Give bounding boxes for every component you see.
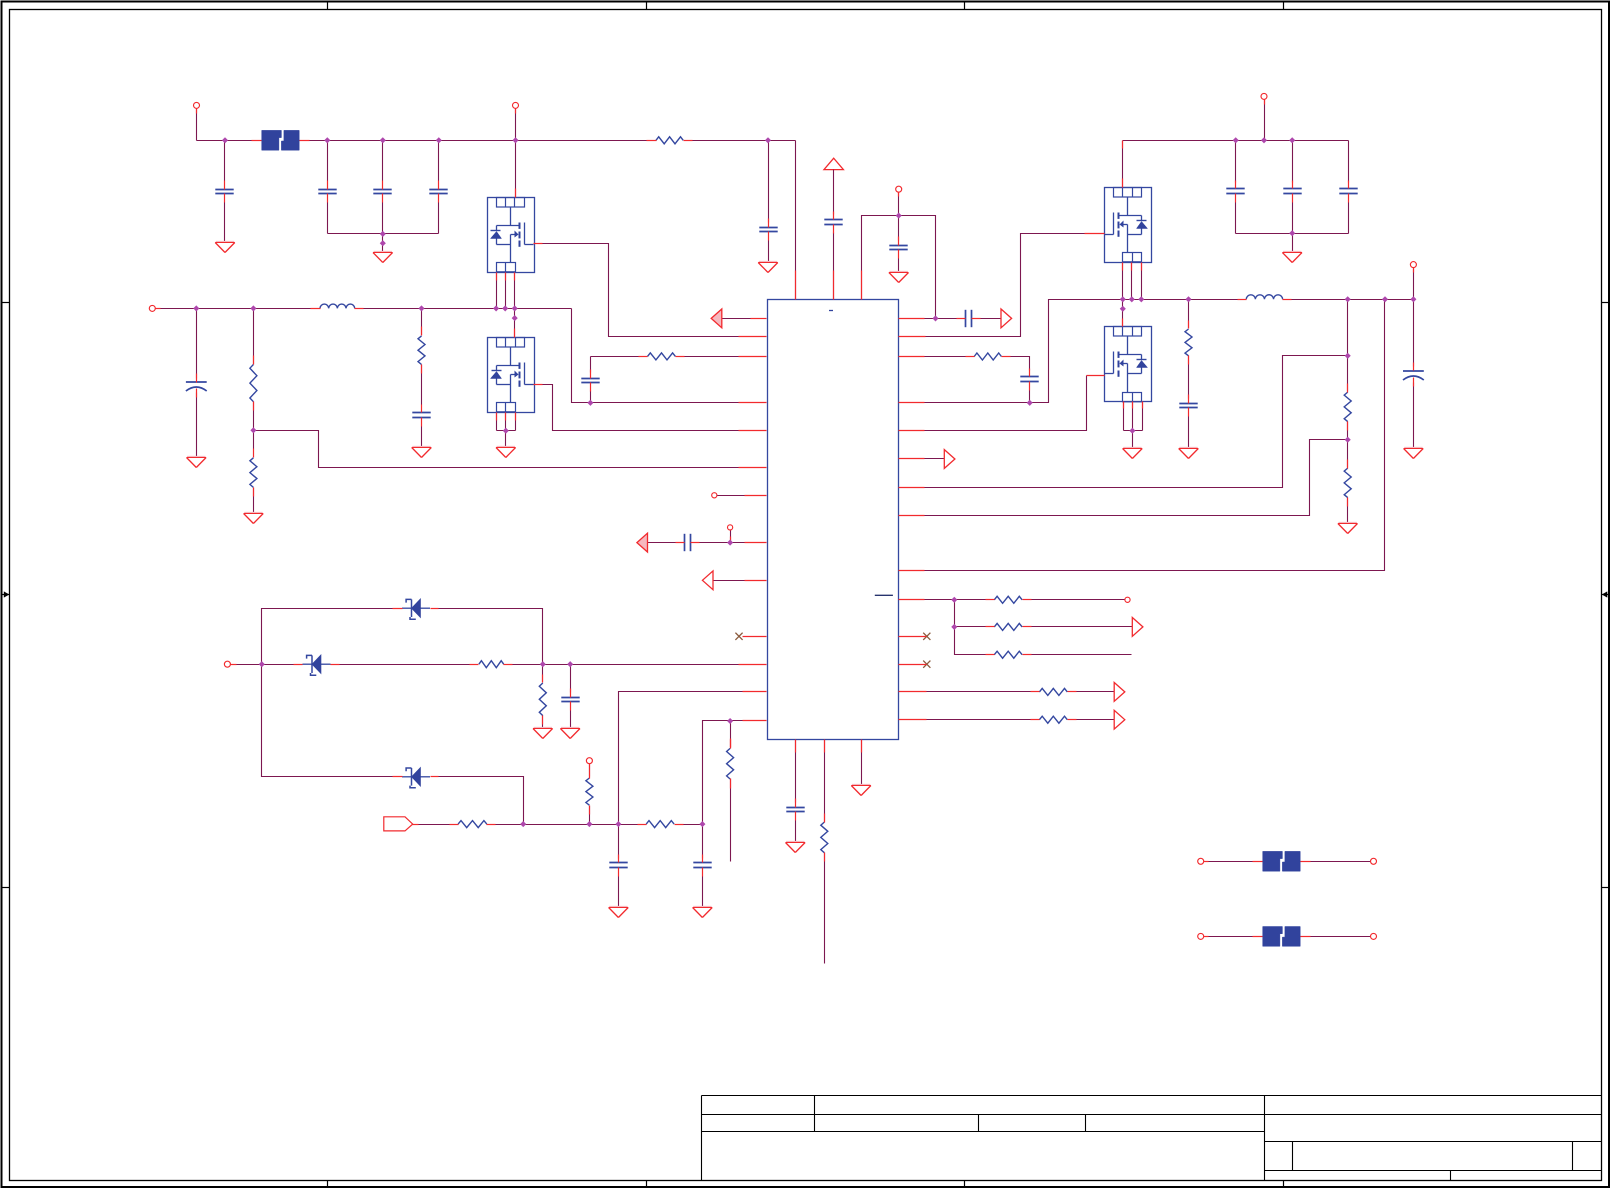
wire Cb bottom lead (590, 391, 592, 403)
resistor R snub R (1185, 329, 1192, 356)
resistor R fb2 (1344, 468, 1351, 498)
wire Q3 source lead x=1131.8 (1131, 263, 1133, 300)
wire bottom pin2 (824, 740, 826, 822)
junction (765, 137, 771, 143)
wire branch3 end (1023, 654, 1132, 656)
resistor R ss-gnd (727, 748, 734, 779)
wire Q2 source lead x=515.2 (515, 413, 517, 431)
port P2 (513, 102, 519, 108)
ground under Cz (560, 729, 580, 739)
wire EN cap top (898, 216, 900, 241)
junction (1289, 230, 1295, 236)
wire snub top (1188, 300, 1190, 329)
wire Q1 source lead x=514.7 (514, 273, 516, 309)
wire RC top (421, 309, 423, 336)
wire cap top x=1235.7 (1235, 141, 1237, 183)
capacitor C bst (965, 310, 967, 327)
wire zener bottom seg2 (431, 777, 524, 825)
wire Q2 gate to U1 (543, 385, 739, 431)
port F3 right (1371, 933, 1377, 939)
wire VOUT rail (1123, 140, 1349, 142)
junction (1410, 296, 1416, 302)
wire bottom pin2 end (824, 853, 826, 964)
wire R div mid (253, 402, 255, 431)
wire Q1 source lead x=496.1 (496, 273, 498, 309)
wire ilim arrow lead (648, 542, 676, 544)
wire Q2 source lead x=496.2 (496, 413, 498, 431)
wire LG stub (1087, 375, 1105, 377)
wire FB2 to divider mid (925, 440, 1348, 516)
ground under Q4 (1123, 449, 1143, 459)
wire rail to Q3 drain (1122, 141, 1124, 188)
wire port to VIN rail (196, 109, 198, 141)
wire SW-R rail seg1 (1123, 299, 1246, 301)
junction (503, 428, 509, 434)
resistor R z-gnd (539, 683, 546, 716)
resistor R input (458, 821, 487, 828)
wire zener bottom seg1 (262, 665, 403, 777)
wire FB to divider top (925, 356, 1348, 488)
zener diode D1 (402, 607, 412, 609)
junction (1261, 137, 1267, 143)
capacitor plates x=327.3 (318, 189, 336, 191)
capacitor C comp (1020, 376, 1038, 378)
capacitor C ilim (684, 534, 686, 551)
wire Q4 source bracket (1124, 430, 1143, 432)
zener diode D2 (303, 663, 313, 665)
wire to U1 VCC pin (833, 233, 835, 300)
capacitor C bypass L (581, 378, 599, 380)
wire SW-L rail seg1 (156, 308, 321, 310)
wire F2 left (1204, 861, 1263, 863)
wire bottom pin1 (795, 740, 797, 803)
wire C618 top (618, 825, 620, 859)
port arrow OUT1 (1114, 683, 1125, 702)
resistor R ss3 (994, 651, 1022, 658)
junction (567, 661, 573, 667)
wire zener row mid seg1 (231, 664, 303, 666)
wire snub mid (1188, 356, 1190, 399)
wire Rdiv2 to gnd (253, 488, 255, 514)
wire F3 right (1301, 936, 1371, 938)
wire port2 to Q1 drain (515, 109, 517, 198)
wire branch2 arrow lead (1023, 626, 1133, 628)
junction (951, 624, 957, 630)
junction (951, 597, 957, 603)
border zone ticks (327, 2, 329, 10)
port arrow LX (711, 309, 722, 328)
capacitor C out x=1292.2 (1283, 188, 1301, 190)
wire input line seg1 (487, 824, 646, 826)
wire Rz top (542, 665, 544, 683)
wire SW-L to U1 pin (572, 309, 767, 403)
capacitor C vcc (824, 219, 842, 221)
input tag flag (384, 817, 413, 831)
wire Rss end (730, 779, 732, 862)
junction (1233, 137, 1239, 143)
wire mode (713, 580, 745, 582)
wire U1 pin to input line (619, 692, 743, 825)
capacitor C en (889, 245, 907, 247)
wire to ground (1132, 431, 1134, 449)
wire out2 (927, 719, 1039, 721)
ground under Rdiv2 (244, 514, 264, 524)
junction (699, 821, 705, 827)
wire to bus (1348, 203, 1350, 234)
wire stub to circle (730, 531, 732, 543)
wire BST (925, 318, 957, 320)
wire div top (1347, 300, 1349, 392)
port P3 SW-L (149, 305, 155, 311)
power arrow VCC (824, 158, 843, 169)
ground under C2 (187, 458, 207, 468)
wire stub to gnd (1292, 234, 1294, 253)
junction (1138, 296, 1144, 302)
mosfet Q4 low-side right (1105, 327, 1152, 402)
wire zener row to U1 (504, 664, 739, 666)
resistor R input2 (646, 821, 674, 828)
junction (418, 305, 424, 311)
op-amp U1 main controller IC (768, 300, 899, 740)
capacitor C 618 (609, 862, 627, 864)
wire nc (717, 495, 745, 497)
wire out1 (927, 691, 1039, 693)
capacitor C out3 (1339, 188, 1357, 190)
junction (436, 137, 442, 143)
wire input line seg2 (683, 824, 703, 826)
resistor R ss1 (994, 596, 1022, 603)
junction (1120, 306, 1126, 312)
wire C618 bottom (618, 877, 620, 908)
wire Cz top (570, 665, 572, 693)
capacitor C snub L (412, 412, 430, 414)
port arrow BST (1001, 309, 1012, 328)
wire zener top seg2 (431, 609, 543, 665)
resistor R out2 (1039, 716, 1067, 723)
port F3 left (1198, 933, 1204, 939)
junction (896, 213, 902, 219)
junction (502, 305, 508, 311)
capacitor C out4 polarized (1403, 370, 1424, 372)
wire rail corner down (1348, 141, 1350, 183)
port F2 right (1371, 858, 1377, 864)
wire ilim (699, 542, 745, 544)
junction (615, 821, 621, 827)
mosfet Q1 high-side left (488, 198, 535, 273)
wire VOUT sense to rail (925, 300, 1385, 571)
wire to Rss (730, 721, 732, 748)
wire to gnd (795, 821, 797, 843)
wire branch2 (955, 626, 994, 628)
wire Q3 source lead x=1141.3 (1141, 263, 1143, 300)
wire LG to Q4 gate (925, 376, 1087, 431)
mosfet Q3 high-side right (1105, 188, 1152, 263)
wire port to rail (1264, 100, 1266, 141)
wire stub to ground (382, 234, 384, 253)
wire Q2 source bracket (497, 430, 516, 432)
wire port down (1413, 268, 1415, 300)
junction (1345, 353, 1351, 359)
wire U1 pin to C702 node (703, 721, 743, 825)
wire C2 top (196, 309, 198, 379)
wire VIN rail seg2 (300, 140, 655, 142)
junction (193, 305, 199, 311)
inductor L2 (1246, 295, 1282, 300)
wire zener row mid seg2 (331, 664, 479, 666)
ground under out caps (1282, 253, 1302, 263)
fuse F1 body (262, 130, 282, 150)
port P1 VIN (194, 102, 200, 108)
port P7 VOUT (1261, 93, 1267, 99)
wire cap to gnd (1413, 383, 1415, 449)
wire cap bottom x=382.8 (382, 203, 384, 234)
wire SS (925, 599, 994, 601)
port small ILIM (728, 525, 733, 530)
capacitor C out x=1235.7 (1226, 188, 1244, 190)
capacitor C vin tap (759, 227, 777, 229)
wire EN to U1 pin (862, 216, 899, 300)
resistor R top rail (656, 137, 683, 144)
junction (520, 821, 526, 827)
junction (1129, 428, 1135, 434)
junction (250, 305, 256, 311)
ground under C1 (215, 243, 235, 253)
junction (1120, 296, 1126, 302)
wire SW to Q2 drain (514, 309, 516, 338)
junction (222, 137, 228, 143)
junction (324, 137, 330, 143)
wire Q2 source lead x=505.8 (505, 413, 507, 431)
wire Cb top lead (590, 357, 592, 373)
port P8 (1410, 262, 1416, 268)
wire cap bottom bus right (1236, 233, 1349, 235)
fuse F2 body (1263, 851, 1283, 871)
no-connect x right 2 (923, 661, 930, 668)
junction (540, 661, 546, 667)
wire cap bottom x=1292.2 (1292, 203, 1294, 234)
mosfet Q2 low-side left (488, 338, 535, 413)
port P4 EN (896, 186, 902, 192)
no-connect x right 1 (923, 633, 930, 640)
wire C1 bottom (224, 203, 226, 243)
wire to ground (505, 431, 507, 448)
junction (586, 821, 592, 827)
junction (727, 718, 733, 724)
port arrow ILIM (637, 533, 648, 552)
wire R filter to U1 (676, 356, 739, 358)
junction (1027, 400, 1033, 406)
wire Q1 gate to U1 (543, 244, 739, 337)
resistor Rdiv2 (250, 458, 257, 488)
wire EN port down (898, 193, 900, 216)
junction (380, 240, 386, 246)
border center arrows (4, 591, 10, 597)
junction (727, 540, 733, 546)
wire cap top x=327.3 (327, 141, 329, 181)
wire LX arrow lead (722, 318, 751, 320)
junction (1129, 296, 1135, 302)
junction (932, 315, 938, 321)
port SS (1125, 597, 1130, 602)
wire F2 right (1301, 861, 1371, 863)
wire SW-L rail seg2 (355, 308, 572, 310)
resistor R comp (974, 353, 1001, 360)
wire R to line (589, 806, 591, 825)
junction (512, 137, 518, 143)
wire comp (925, 356, 974, 358)
wire Q4 source lead x=1132.4 (1132, 402, 1134, 431)
junction (587, 400, 593, 406)
port arrow PGOOD (944, 450, 955, 469)
wire to gnd (768, 241, 770, 263)
port arrow SS2 (1132, 618, 1143, 637)
wire tag to R (413, 824, 458, 826)
resistor R ss2 (994, 623, 1022, 630)
title block (702, 1095, 1602, 1097)
wire port to R (589, 764, 591, 777)
junction (380, 137, 386, 143)
ground under snub R (1179, 449, 1199, 459)
wire R div top (253, 309, 255, 365)
wire div to Rdiv2 (253, 431, 255, 449)
resistor R pullup (586, 778, 593, 805)
wire C702 top (702, 825, 704, 859)
capacitor C 702 (693, 862, 711, 864)
wire C2 bottom (196, 393, 198, 458)
wire F3 left (1204, 936, 1263, 938)
capacitor C2 plates (186, 381, 207, 383)
ground under C702 (693, 908, 713, 918)
junction (1185, 296, 1191, 302)
capacitor C1 plates (215, 189, 233, 191)
wire BST arrow lead (981, 318, 1001, 320)
resistor R snub L (418, 336, 425, 365)
ground under C618 (609, 908, 629, 918)
capacitor plates x=382.8 (373, 189, 391, 191)
ground under C out4 (1404, 449, 1424, 459)
wire comp corner (1002, 357, 1030, 371)
wire HG to Q3 gate (926, 234, 1085, 337)
port P5 (224, 661, 230, 667)
wire RC bottom (421, 427, 423, 448)
port arrow OUT2 (1114, 710, 1125, 729)
ground under Cen (889, 273, 909, 283)
wire to port (1023, 599, 1125, 601)
wire pgood (925, 458, 945, 460)
wire VCC down (833, 170, 835, 215)
wire down to U1 VIN pin (795, 141, 797, 300)
wire zener top seg1 (262, 609, 403, 665)
wire out2 arrow lead (1068, 719, 1115, 721)
wire Ccomp bottom (1029, 391, 1031, 403)
resistor R zener (479, 661, 504, 668)
wire out1 arrow lead (1068, 691, 1115, 693)
resistor R fb1 (1344, 392, 1351, 422)
ground under C bottom (786, 843, 806, 853)
wire SW-R rail seg2 (1283, 299, 1414, 301)
resistor R bottom (821, 822, 828, 853)
capacitor C bottom (786, 807, 804, 809)
red pin lead overlays (196, 109, 198, 114)
junction (493, 305, 499, 311)
wire Q3 source lead x=1122.8 (1122, 263, 1124, 300)
wire snub bottom (1188, 417, 1190, 449)
wire Q1 source lead x=505.2 (505, 273, 507, 309)
resistor R filter L (648, 353, 676, 360)
wire VIN tap down (768, 141, 770, 223)
junction (380, 231, 386, 237)
port small NC (712, 493, 717, 498)
junction (512, 305, 518, 311)
wire cap top x=382.8 (382, 141, 384, 181)
ground under Rz (533, 729, 553, 739)
wire div bottom (1347, 498, 1349, 524)
wire to R filter (591, 356, 647, 358)
wire cap bottom x=438.8 (438, 203, 440, 234)
capacitor plates x=438.8 (429, 189, 447, 191)
wire SW-R from U1 (925, 300, 1123, 403)
wire C1 top (224, 141, 226, 181)
junction (1382, 296, 1388, 302)
wire Q4 source lead x=1123.8 (1123, 402, 1125, 431)
wire VIN rail seg3 (684, 140, 796, 142)
fuse F3 body (1263, 927, 1283, 947)
wire div node to U1 (254, 431, 739, 468)
resistor R out1 (1039, 688, 1067, 695)
ground under divider (1338, 524, 1358, 534)
wire cap bottom bus (328, 233, 439, 235)
wire Cz bottom (570, 711, 572, 729)
wire cap top x=438.8 (438, 141, 440, 181)
wire SS branch down (954, 600, 956, 627)
wire cap top x=1292.2 (1292, 141, 1294, 183)
wire cap bottom x=327.3 (327, 203, 329, 234)
zener diode D3 (402, 776, 412, 778)
wire to cap (1413, 300, 1415, 367)
ground under Q2 (496, 448, 516, 458)
capacitor C snub R (1179, 403, 1197, 405)
no-connect x left (735, 633, 742, 640)
ground under U1 pin3 (851, 786, 871, 796)
inductor L1 (320, 304, 355, 308)
wire SW to Q4 drain (1122, 300, 1124, 327)
ground under cap bus (373, 253, 393, 263)
junction (512, 315, 518, 321)
port F2 left (1198, 858, 1204, 864)
junction (1345, 296, 1351, 302)
wire Rz bottom (542, 716, 544, 729)
junction (1345, 437, 1351, 443)
wire branch3 (955, 627, 994, 655)
wire EN cap bottom (898, 259, 900, 273)
resistor Rdiv1 (250, 365, 257, 402)
wire C702 bottom (702, 877, 704, 908)
wire VIN rail seg1 (197, 140, 262, 142)
wire EN to BST node (899, 216, 936, 319)
wire Q4 source lead x=1142 (1142, 402, 1144, 431)
ground under Cvin (758, 263, 778, 273)
port P6 (586, 758, 592, 764)
ground under snub L (412, 448, 432, 458)
wire div mid (1347, 422, 1349, 468)
wire cap bottom x=1235.7 (1235, 203, 1237, 234)
junction (259, 661, 265, 667)
junction (1289, 137, 1295, 143)
junction (250, 427, 256, 433)
capacitor C z (561, 697, 579, 699)
wire bottom pin3 (861, 740, 863, 786)
port arrow MODE (702, 571, 713, 590)
